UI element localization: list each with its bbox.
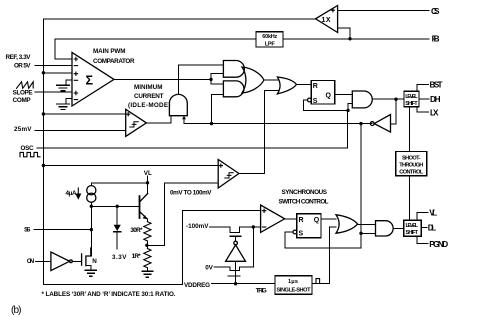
bubble switch-driver amp output	[234, 241, 238, 245]
wire upper analog switch channel	[230, 227, 253, 232]
svg-text:LX: LX	[430, 108, 439, 117]
wire inverter line down branch to AND-D	[361, 232, 376, 234]
wire inverter output line to min gate arrow input	[184, 116, 361, 124]
wire comparator pin6 to ground	[66, 99, 72, 103]
svg-text:CURRENT: CURRENT	[134, 93, 164, 100]
resistor R2 1R	[144, 249, 151, 268]
svg-text:N: N	[92, 258, 97, 265]
svg-text:BST: BST	[430, 80, 443, 89]
svg-text:Q: Q	[326, 93, 332, 100]
svg-text:SYNCHRONOUS: SYNCHRONOUS	[282, 189, 328, 196]
svg-text:60kHz: 60kHz	[262, 34, 277, 40]
svg-text:PGND: PGND	[429, 240, 448, 249]
bubble FF2 S input	[293, 230, 297, 234]
wire sync comparator output to FF2 R	[285, 218, 297, 220]
wire main comparator output	[114, 78, 211, 80]
or-gate OR2 DH set	[277, 77, 296, 94]
ground under N-FET source	[85, 270, 96, 276]
wire upper switch gate stem	[235, 236, 237, 241]
svg-text:* LABLES ‘30R’ AND ‘R’ INDICAT: * LABLES ‘30R’ AND ‘R’ INDICATE 30:1 RAT…	[42, 291, 176, 298]
svg-text:MINIMUM: MINIMUM	[134, 84, 163, 91]
svg-text:SLOPE: SLOPE	[13, 90, 33, 97]
svg-text:FB: FB	[432, 34, 440, 43]
or-gate OR1 PWM set	[242, 67, 264, 93]
plus minus signs sync comparator	[262, 209, 265, 212]
svg-text:SINGLE-SHOT: SINGLE-SHOT	[277, 288, 312, 294]
wire branch to AND-A lower input	[211, 74, 223, 85]
arrowhead min gate lower-right input	[182, 116, 186, 119]
wire 1R to ground	[146, 269, 148, 271]
wire slope comp to comparator pin5	[35, 91, 72, 93]
svg-text:REF, 3.3V: REF, 3.3V	[6, 54, 32, 61]
svg-text:VDDREG: VDDREG	[184, 282, 210, 289]
svg-text:CS: CS	[431, 7, 440, 16]
wire FF2 Q to OR3	[321, 218, 336, 220]
svg-text:ON: ON	[27, 258, 35, 265]
wire DH	[419, 98, 429, 100]
wire CS rail to 0-100mV comparator plus	[43, 165, 218, 167]
svg-text:LPF: LPF	[265, 41, 276, 47]
svg-text:CONTROL: CONTROL	[399, 169, 424, 175]
svg-text:SHIFT: SHIFT	[406, 230, 419, 236]
wire min-current gate output to AND-A top input	[178, 65, 223, 95]
transistor upper analog switch gate bar	[230, 235, 241, 237]
flip-flop FF2 synchronous switch latch	[297, 214, 321, 238]
diode zener triangle 3.3V	[114, 225, 121, 231]
wire 1X minus feedback	[338, 28, 350, 39]
svg-text:0mV TO 100mV: 0mV TO 100mV	[170, 190, 212, 197]
svg-text:OR 5V: OR 5V	[14, 62, 31, 69]
wire CS input line	[338, 9, 429, 11]
svg-text:0V: 0V	[205, 265, 213, 272]
wire AND-C output to level shifter	[372, 98, 404, 100]
plus sign idle comparator	[127, 113, 130, 116]
junction dots	[42, 71, 45, 74]
svg-text:COMPARATOR: COMPARATOR	[93, 58, 135, 65]
and-gate A top PWM gate	[223, 61, 244, 78]
wire amp stem to lower gate and VDDREG	[235, 261, 237, 283]
svg-text:R: R	[299, 217, 304, 224]
wire FF1 S bubble to OSC node	[304, 100, 348, 110]
transistor N1 soft-start N-FET	[82, 248, 91, 266]
svg-text:DL: DL	[428, 224, 437, 233]
inverter ON input buffer	[51, 252, 70, 271]
svg-text:SHOOT-: SHOOT-	[402, 155, 421, 161]
wire VL output	[417, 213, 428, 221]
comparator 0mV-100mV soft-start comparator	[218, 160, 239, 189]
amplifier switch-driver triangle	[226, 245, 246, 261]
box 60kHz LPF	[256, 32, 283, 47]
wire ON inverter to N-FET gate	[72, 260, 82, 262]
svg-text:(IDLE-MODE): (IDLE-MODE)	[128, 102, 171, 109]
and-gate minimum current idle-mode gate	[169, 94, 187, 115]
svg-text:SWITCH CONTROL: SWITCH CONTROL	[279, 199, 329, 206]
transistor Q1 BJT emitter follower	[139, 196, 141, 218]
box level shift DH	[404, 91, 419, 107]
comparator synchronous zero-crossing comparator	[261, 205, 285, 232]
and-gate C DH output gate	[352, 91, 372, 108]
arrowhead BJT emitter	[143, 215, 147, 219]
svg-text:25mV: 25mV	[14, 126, 32, 133]
svg-text:SHIFT: SHIFT	[405, 101, 418, 107]
svg-text:COMP: COMP	[13, 97, 31, 104]
wire PGND	[417, 236, 428, 244]
wire CS rail to comparator pin3	[43, 72, 72, 74]
op-amp 1X current-sense buffer	[316, 6, 338, 33]
wire -100mV to switch	[210, 226, 231, 228]
wire FB input line through LPF	[55, 39, 429, 59]
wire idle comparator output to min gate	[146, 116, 171, 123]
wire inverter output to left	[285, 124, 372, 248]
svg-text:TRIG: TRIG	[256, 288, 267, 295]
wire AND-D output to lower level shifter	[393, 227, 404, 229]
plus sign 1X buffer	[331, 9, 334, 12]
wire 25mV to idle comparator minus	[35, 129, 126, 131]
svg-text:S: S	[299, 230, 304, 237]
wire BJT emitter to 30R	[146, 219, 148, 222]
wire zener branch	[116, 206, 118, 249]
svg-text:3.3V: 3.3V	[112, 254, 127, 261]
wire OSC line	[37, 110, 348, 148]
wire CS rail to idle comparator plus	[43, 113, 125, 115]
wire bottom rail to sync comparator plus	[43, 210, 260, 284]
box shoot-through control	[396, 152, 427, 176]
wire -100mV node down to 0V switch	[214, 227, 253, 271]
svg-text:-100mV: -100mV	[186, 223, 209, 230]
bubble DH inverter output	[370, 122, 374, 126]
and-gate D DL output gate	[376, 221, 394, 236]
waveform square wave OSC	[20, 152, 40, 156]
arrowhead 4uA current direction	[76, 188, 80, 199]
wire soft-start node down to N-FET drain	[86, 206, 91, 256]
hysteresis glyph 0-100mV comparator	[225, 173, 233, 178]
svg-text:OSC: OSC	[21, 145, 34, 152]
wire SS line	[34, 229, 91, 231]
waveform pulse single-shot output	[314, 279, 322, 284]
svg-text:LEVEL: LEVEL	[405, 94, 418, 100]
transistor lower analog switch gate bar	[228, 275, 239, 277]
svg-text:Q: Q	[314, 217, 320, 224]
svg-text:VL: VL	[429, 209, 437, 218]
wire OR1 output to OR2	[264, 79, 278, 81]
svg-text:MAIN PWM: MAIN PWM	[93, 48, 126, 55]
comparator minimum current idle-mode comparator	[126, 109, 147, 136]
resistor R1 30R	[144, 222, 151, 241]
wire VL rail	[91, 176, 147, 186]
wire resistor tap to 0-100mV comparator minus	[147, 183, 218, 245]
current source 4uA	[87, 186, 96, 195]
ground under comparator pin4	[57, 85, 70, 90]
bubble FF1 S input	[308, 98, 312, 102]
wire BST	[417, 84, 429, 91]
plus minus signs main comparator	[74, 57, 77, 60]
wire VDDREG to TRIG of single-shot	[212, 283, 275, 285]
wire FF1 Q to AND-C	[335, 93, 353, 95]
svg-text:1X: 1X	[322, 17, 331, 24]
wire current source to base node	[91, 202, 139, 206]
svg-text:1μs: 1μs	[288, 279, 298, 285]
svg-text:DH: DH	[430, 95, 441, 104]
inverter DH feedback	[374, 115, 390, 133]
wire LX	[417, 107, 429, 112]
svg-text:30R*: 30R*	[130, 227, 143, 234]
diode zener 3.3V	[114, 231, 121, 233]
box 1us single-shot	[275, 276, 312, 294]
wire BJT collector to VL rail	[147, 183, 149, 193]
svg-text:Σ: Σ	[86, 74, 94, 88]
wire comparator pin4 to ground	[66, 80, 72, 85]
svg-text:4μA: 4μA	[66, 190, 77, 197]
wire branch to AND-B lower input	[212, 95, 224, 124]
svg-text:R: R	[313, 83, 318, 90]
flip-flop FF1 main PWM latch	[311, 81, 335, 105]
wire OR3 output to AND-D	[358, 224, 376, 226]
box level shift DL	[404, 220, 421, 236]
ground under 1R	[142, 271, 153, 277]
hysteresis glyph idle comparator	[130, 122, 138, 127]
wire 30R to 1R	[146, 242, 148, 249]
wire zero-cross comparator output up to OR2 lower input	[239, 90, 278, 173]
wire AND-C lower input from OSC node	[348, 104, 352, 111]
wire N-FET source to ground	[86, 266, 91, 270]
wire sync comparator minus from -100mV node	[253, 226, 260, 228]
waveform sawtooth slope comp	[17, 82, 34, 89]
plus sign 0-100mV comparator	[219, 164, 222, 167]
svg-text:SS: SS	[24, 227, 31, 234]
wire DL	[421, 226, 427, 228]
wire upper level shifter input chain to shoot-through control	[409, 107, 411, 220]
and-gate B lower PWM gate	[223, 81, 244, 97]
wire OR2 output to FF1 R	[297, 84, 312, 86]
svg-text:S: S	[313, 98, 318, 105]
wire REF line to comparator pin2	[35, 64, 72, 66]
wire DH node down to inverter input	[391, 99, 397, 124]
or-gate OR3 DL set	[336, 215, 358, 233]
svg-text:LEVEL: LEVEL	[406, 223, 419, 229]
wire single-shot output up to OR3 lower input	[312, 227, 336, 284]
svg-text:1R*: 1R*	[132, 253, 142, 260]
op-amp main PWM comparator	[72, 53, 114, 107]
svg-text:VL: VL	[144, 170, 152, 177]
ground under comparator pin6	[57, 104, 70, 109]
svg-text:THROUGH: THROUGH	[399, 162, 423, 168]
wire ON input to inverter	[36, 260, 51, 262]
wire CS output of 1X buffer to left rail	[43, 19, 315, 285]
bubble ON inverter output	[70, 260, 73, 263]
svg-text:(b): (b)	[11, 305, 22, 316]
